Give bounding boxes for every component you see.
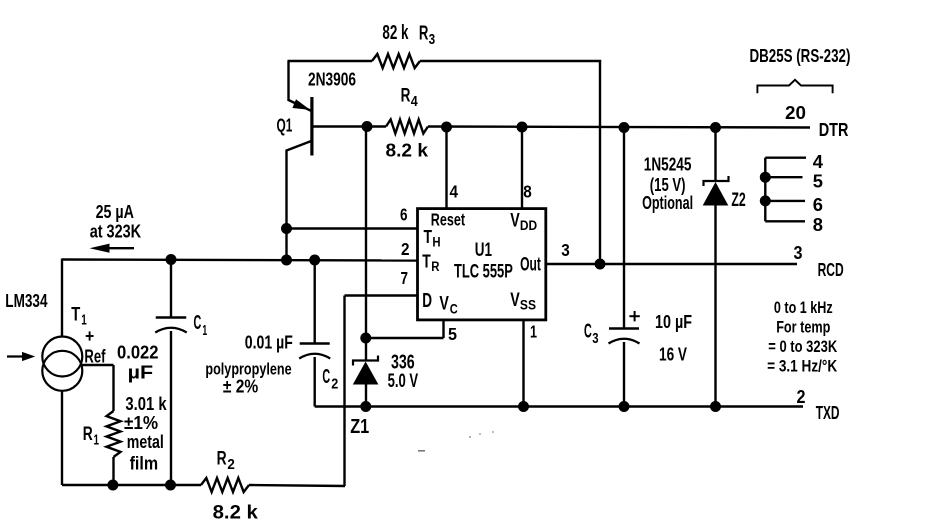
svg-text:2: 2: [227, 457, 235, 473]
node R4-left junction: [362, 121, 373, 132]
wire DB25 pin 6 stub: [765, 200, 805, 202]
svg-text:4: 4: [411, 94, 418, 110]
wire C2 top: [314, 260, 316, 344]
svg-text:5.0 V: 5.0 V: [388, 370, 419, 392]
svg-text:0.022: 0.022: [117, 341, 159, 362]
svg-text:SS: SS: [520, 298, 536, 313]
wire R3 top rail left segment: [288, 60, 373, 62]
svg-text:2: 2: [797, 386, 806, 407]
svg-text:Q1: Q1: [277, 115, 293, 135]
wire Q1 base to R4: [313, 125, 386, 127]
node R1 bottom junction: [107, 480, 118, 491]
svg-text:3: 3: [592, 330, 598, 347]
svg-text:2: 2: [331, 376, 338, 393]
svg-text:Ref: Ref: [84, 346, 106, 366]
wire C3 bottom: [623, 342, 625, 407]
svg-text:4: 4: [450, 181, 459, 201]
svg-text:C: C: [450, 301, 458, 317]
svg-text:R: R: [419, 22, 429, 44]
node C1 top junction: [166, 254, 177, 265]
svg-text:±1%: ±1%: [124, 412, 159, 433]
svg-text:TXD: TXD: [816, 402, 840, 423]
node collector/pin6 junction: [281, 223, 292, 234]
svg-text:± 2%: ± 2%: [223, 376, 258, 396]
plus sign C3: [629, 315, 639, 317]
arrow 25uA current direction: [96, 247, 134, 249]
wire Z1 cathode lead: [365, 338, 367, 361]
node Z1 bottom junction: [360, 401, 371, 412]
op-amp U1 TLC 555P box: [418, 209, 546, 320]
wire DB25 pin 8 stub: [765, 220, 805, 222]
node Out/R3 junction: [595, 259, 606, 270]
wire R3 right drop to Out node: [599, 60, 601, 264]
svg-text:8.2 k: 8.2 k: [386, 139, 429, 160]
wire C1 bottom: [170, 331, 172, 485]
node Z2 bottom junction: [710, 401, 721, 412]
svg-text:5: 5: [813, 171, 823, 192]
wire R1 to bottom rail: [112, 457, 114, 485]
svg-text:1: 1: [530, 321, 537, 341]
svg-text:Reset: Reset: [431, 210, 465, 230]
wire left rail to pin 2 (TR): [62, 260, 418, 261]
node Q1 collector end junction: [281, 255, 292, 266]
svg-text:5: 5: [448, 324, 457, 344]
svg-text:0 to 1 kHz: 0 to 1 kHz: [774, 299, 833, 317]
svg-text:10 µF: 10 µF: [655, 311, 692, 332]
svg-text:7: 7: [401, 268, 409, 288]
svg-text:at 323K: at 323K: [90, 221, 141, 241]
wire pin 7 D line: [345, 294, 418, 296]
svg-text:8: 8: [813, 214, 823, 235]
wire DB25 pin 5 stub: [765, 176, 802, 178]
svg-text:RCD: RCD: [818, 259, 844, 280]
svg-text:C: C: [194, 311, 202, 334]
wire bottom-left rail: [62, 484, 201, 486]
node R4-right pin4 junction: [441, 122, 452, 133]
svg-text:0.01 µF: 0.01 µF: [245, 331, 293, 352]
resistor R3: [372, 54, 420, 68]
svg-text:U1: U1: [475, 240, 493, 261]
zener Z1 triangle: [353, 362, 379, 385]
node Z2-top junction: [710, 122, 721, 133]
svg-text:D: D: [422, 290, 432, 312]
speckle marks: [469, 436, 471, 438]
svg-text:TLC 555P: TLC 555P: [454, 262, 513, 283]
node DB25 pin 6 junction: [760, 195, 771, 206]
svg-text:82 k: 82 k: [382, 22, 409, 44]
transistor Q1 collector diagonal: [287, 141, 312, 151]
svg-text:2N3906: 2N3906: [308, 70, 356, 90]
wire pin 3 Out: [546, 263, 797, 265]
svg-text:R: R: [83, 424, 93, 445]
wire left rail down to T1: [61, 259, 63, 338]
svg-text:16 V: 16 V: [659, 344, 687, 365]
node C2 top junction: [309, 255, 320, 266]
svg-text:T: T: [71, 305, 80, 326]
svg-text:= 0 to 323K: = 0 to 323K: [768, 338, 837, 356]
svg-text:3: 3: [561, 240, 570, 260]
brace DB25: [757, 80, 832, 94]
wire R2 riser to pin D (7): [343, 296, 345, 487]
svg-text:1: 1: [202, 322, 207, 339]
resistor R4: [386, 120, 428, 134]
wire pin 8 VDD: [521, 127, 523, 209]
svg-text:25 µA: 25 µA: [96, 202, 134, 222]
wire R2 to riser: [249, 485, 345, 486]
svg-text:Optional: Optional: [642, 192, 693, 213]
wire R3 top rail right segment: [420, 60, 601, 62]
transistor Q1 emitter arrow (PNP): [292, 99, 310, 110]
node pin8 junction: [517, 122, 528, 133]
wire Ref to R1: [82, 364, 114, 366]
svg-text:R: R: [431, 259, 439, 274]
svg-text:H: H: [432, 235, 440, 250]
current source T1 lower circle: [42, 351, 82, 391]
svg-text:film: film: [130, 453, 159, 474]
svg-text:LM334: LM334: [5, 291, 48, 311]
wire pin 1 VSS: [522, 320, 524, 407]
wire DB25 pin 4 stub: [765, 156, 806, 158]
svg-text:6: 6: [813, 194, 823, 215]
svg-text:20: 20: [785, 102, 806, 123]
wire collector to pin 6 (TH): [287, 227, 418, 229]
svg-text:4: 4: [813, 151, 824, 172]
svg-text:1: 1: [94, 432, 100, 448]
svg-text:V: V: [510, 211, 520, 232]
svg-text:DB25S (RS-232): DB25S (RS-232): [750, 45, 851, 66]
wire emitter-to-R3 top-left vertical: [287, 61, 289, 101]
transistor Q1 emitter diagonal: [289, 100, 312, 111]
svg-text:V: V: [510, 290, 520, 311]
svg-text:C: C: [584, 319, 592, 342]
wire C2 bottom: [314, 357, 316, 407]
node pin1 bottom junction: [518, 401, 529, 412]
svg-text:DTR: DTR: [819, 119, 849, 140]
wire DB25 pin group vertical: [764, 158, 766, 222]
wire Z2 top lead: [714, 128, 716, 182]
svg-text:T: T: [424, 227, 433, 247]
resistor R2: [201, 478, 249, 492]
svg-text:1N5245: 1N5245: [644, 154, 692, 175]
zener Z2 triangle: [703, 182, 729, 206]
node DB25 pin 5 junction: [760, 172, 771, 183]
wire C1 top: [170, 260, 172, 318]
zener Z2 cathode bar: [704, 176, 729, 186]
svg-text:1: 1: [81, 313, 87, 329]
svg-text:= 3.1 Hz/°K: = 3.1 Hz/°K: [767, 358, 837, 376]
svg-text:Out: Out: [520, 255, 541, 276]
wire Q1 collector drop: [285, 150, 287, 262]
wire T1 down to bottom rail: [61, 391, 63, 486]
resistor R1: [107, 411, 121, 457]
svg-text:C: C: [322, 365, 330, 388]
svg-text:Z1: Z1: [350, 416, 369, 438]
wire TXD rail: [315, 405, 803, 407]
node C3 bottom junction: [619, 401, 630, 412]
node C1 bottom junction: [165, 480, 176, 491]
wire C3 top: [623, 128, 625, 329]
svg-text:8.2 k: 8.2 k: [213, 503, 259, 524]
svg-text:R: R: [401, 86, 411, 107]
wire R4 to DTR pin 20: [428, 127, 810, 128]
node Z1 top junction (pin5 net): [360, 333, 371, 344]
plus sign T1: [86, 335, 94, 337]
svg-text:3: 3: [794, 242, 803, 263]
node C3-top junction: [619, 122, 630, 133]
svg-text:2: 2: [401, 239, 410, 259]
svg-text:V: V: [439, 294, 449, 315]
wire Z1 anode lead: [365, 385, 367, 407]
svg-text:For temp: For temp: [776, 319, 830, 337]
current source T1 upper circle: [42, 337, 82, 377]
svg-text:µF: µF: [128, 362, 154, 383]
wire R4 junction down to Z1: [365, 127, 367, 339]
arrow LM334 input: [7, 355, 24, 357]
svg-text:3: 3: [429, 31, 436, 48]
wire pin 5 VC: [442, 320, 444, 338]
svg-text:Z2: Z2: [731, 189, 745, 211]
svg-text:8: 8: [523, 182, 532, 202]
wire pin 4 Reset: [445, 127, 447, 209]
capacitor C1: [156, 316, 187, 318]
svg-text:6: 6: [400, 205, 408, 225]
capacitor C2: [300, 342, 330, 344]
zener Z1 cathode bar: [353, 356, 378, 366]
svg-text:DD: DD: [520, 218, 538, 233]
transistor Q1 base bar: [310, 97, 313, 156]
svg-text:R: R: [217, 448, 227, 469]
svg-text:T: T: [422, 251, 431, 271]
wire Z2 bottom lead: [714, 206, 716, 407]
svg-text:metal: metal: [127, 431, 164, 452]
capacitor C3: [609, 327, 639, 329]
